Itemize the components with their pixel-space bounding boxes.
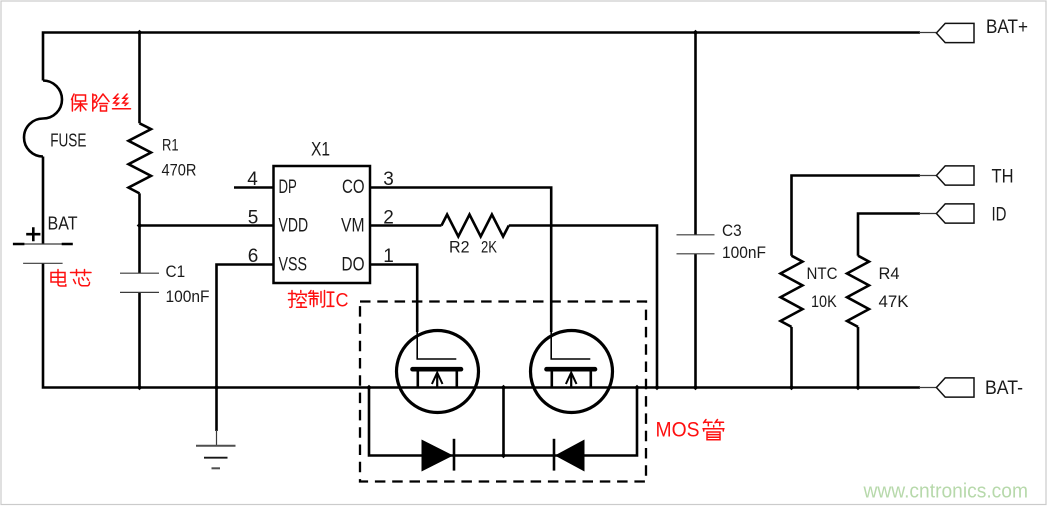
svg-text:3: 3 [383, 169, 394, 190]
svg-text:TH: TH [992, 165, 1014, 187]
svg-text:C3: C3 [722, 221, 742, 240]
svg-text:47K: 47K [879, 292, 910, 311]
svg-text:NTC: NTC [807, 264, 838, 283]
svg-text:100nF: 100nF [166, 287, 210, 306]
svg-text:BAT: BAT [48, 214, 78, 234]
svg-text:R2: R2 [449, 237, 470, 256]
svg-text:BAT+: BAT+ [986, 16, 1028, 38]
svg-text:6: 6 [248, 246, 259, 267]
svg-text:C: C [336, 290, 349, 312]
svg-text:MOS: MOS [656, 417, 700, 441]
svg-text:5: 5 [248, 208, 259, 229]
svg-text:1: 1 [383, 246, 394, 267]
svg-text:X1: X1 [311, 140, 330, 161]
svg-text:2: 2 [383, 208, 394, 229]
svg-text:VDD: VDD [279, 216, 309, 237]
svg-text:www.cntronics.com: www.cntronics.com [863, 481, 1028, 503]
svg-text:FUSE: FUSE [50, 131, 86, 151]
svg-text:VSS: VSS [279, 254, 308, 275]
svg-text:DP: DP [279, 177, 297, 198]
svg-text:ID: ID [992, 203, 1007, 225]
svg-text:10K: 10K [811, 292, 837, 311]
svg-text:470R: 470R [162, 160, 197, 179]
svg-text:DO: DO [342, 254, 365, 275]
svg-text:4: 4 [247, 169, 258, 190]
svg-text:C1: C1 [166, 262, 186, 281]
svg-text:CO: CO [342, 177, 365, 198]
svg-text:BAT-: BAT- [985, 377, 1023, 399]
svg-text:100nF: 100nF [722, 243, 766, 262]
svg-text:2K: 2K [481, 237, 498, 256]
svg-text:R1: R1 [162, 135, 179, 154]
svg-text:R4: R4 [879, 264, 900, 283]
svg-text:VM: VM [341, 216, 365, 237]
